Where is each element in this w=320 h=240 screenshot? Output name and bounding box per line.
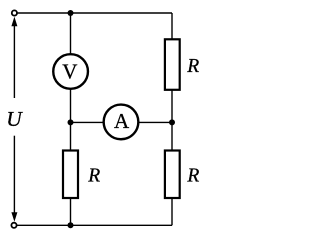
wire right vertical lower [171, 198, 173, 225]
node top (junction dot) [68, 10, 74, 16]
wire middle resistor branch lower [70, 198, 72, 225]
resistor R top-right [165, 39, 180, 90]
terminal bottom-left [11, 223, 16, 228]
wire middle horizontal left [71, 121, 105, 123]
wire bottom horizontal [14, 224, 172, 226]
wire right vertical middle [171, 90, 173, 151]
voltage arrow U upper segment with up arrowhead [11, 17, 17, 98]
wire voltmeter branch lower [70, 88, 72, 122]
svg-text:A: A [114, 109, 130, 133]
wire right vertical upper [171, 13, 173, 40]
svg-text:U: U [6, 107, 23, 131]
resistor R middle [63, 151, 78, 199]
wire top horizontal [14, 12, 172, 14]
voltmeter V [53, 54, 88, 89]
wire voltmeter branch upper [70, 13, 72, 55]
node middle-right (junction dot) [169, 119, 175, 125]
resistor R bottom-right [165, 151, 180, 199]
terminal top-left [12, 10, 17, 15]
svg-text:R: R [186, 165, 199, 186]
svg-text:V: V [62, 60, 77, 84]
node bottom (junction dot) [68, 222, 74, 228]
svg-text:R: R [186, 56, 199, 77]
wire middle resistor branch upper [70, 122, 72, 151]
node middle-left (junction dot) [68, 119, 74, 125]
ammeter A [104, 105, 139, 140]
wire middle horizontal right [138, 121, 172, 123]
svg-text:R: R [87, 165, 100, 186]
voltage arrow U lower segment with down arrowhead [11, 136, 17, 222]
